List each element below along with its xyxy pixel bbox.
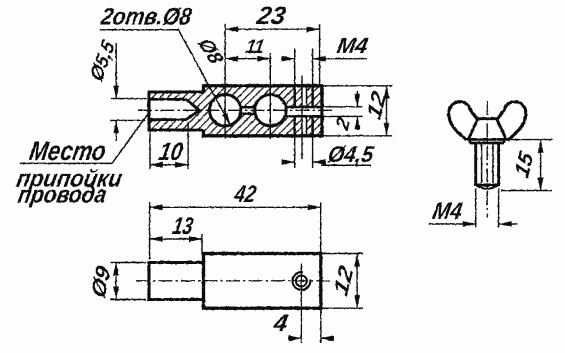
svg-text:42: 42 — [232, 181, 259, 208]
bottom view neck — [149, 263, 204, 300]
dimension Ø9 — [88, 263, 146, 302]
svg-text:Ø5,5: Ø5,5 — [86, 36, 119, 86]
dimension 12 top view — [322, 86, 392, 136]
leader Mesto pripoyki provoda — [15, 110, 151, 209]
wing nut boss — [468, 119, 506, 140]
dimension M4 top — [281, 33, 370, 86]
svg-text:2: 2 — [333, 114, 355, 134]
dimension 42 — [150, 181, 321, 259]
axial hole Ø5.5 cutout — [149, 99, 200, 119]
dimension 11 — [225, 36, 270, 139]
svg-text:Ø9: Ø9 — [88, 263, 116, 301]
hole circle 2 cutout — [255, 95, 286, 126]
svg-text:Ø4,5: Ø4,5 — [326, 141, 377, 167]
dimension 15 — [501, 140, 553, 191]
dimension Ø4,5 — [282, 136, 377, 168]
bottom view hole inner circle — [296, 276, 307, 287]
hole circle 1 cutout — [210, 95, 241, 126]
dimension 4 — [271, 308, 334, 343]
dimension 2 — [322, 91, 363, 134]
slot cutout right — [285, 107, 322, 116]
screw hole column cutout — [302, 86, 307, 136]
axial hole outline — [149, 99, 200, 119]
hole circle 1 — [210, 95, 241, 126]
wing nut right wing — [497, 102, 526, 140]
dimension 10 — [150, 122, 188, 169]
svg-text:11: 11 — [244, 36, 266, 58]
svg-text:Ø8: Ø8 — [193, 36, 228, 68]
dimension M4 wing nut — [429, 188, 518, 228]
bottom view hole center line — [300, 264, 302, 343]
slot lines right — [285, 107, 322, 116]
svg-text:Место: Место — [27, 135, 108, 166]
svg-text:M4: M4 — [431, 198, 465, 225]
wing nut flange — [465, 139, 510, 143]
stud bottom dome — [477, 186, 498, 189]
svg-text:M4: M4 — [335, 33, 370, 58]
svg-text:2отв.Ø8: 2отв.Ø8 — [98, 4, 194, 31]
svg-text:провода: провода — [16, 182, 109, 209]
bottom view hole outer circle — [293, 272, 311, 290]
neck outline — [149, 92, 204, 130]
slot lines between circles — [240, 107, 255, 114]
bottom view axis — [136, 280, 331, 282]
dimension Ø5,5 — [86, 36, 146, 141]
main axis center line — [138, 109, 333, 111]
svg-text:12: 12 — [330, 262, 358, 299]
svg-text:10: 10 — [157, 138, 185, 166]
screw hole lines — [295, 86, 313, 136]
svg-text:23: 23 — [254, 2, 288, 30]
dimension 12 bottom view — [321, 254, 363, 309]
body outline — [204, 86, 323, 136]
dimension 23 — [225, 2, 320, 139]
hole circle 2 — [255, 95, 286, 126]
bottom view body — [204, 254, 321, 309]
dimension 13 — [150, 213, 202, 255]
stud thread lines — [482, 145, 493, 184]
screw hole thread lines — [306, 86, 308, 136]
label 2otv.Ø8 with leader — [98, 4, 230, 126]
svg-text:13: 13 — [170, 213, 195, 240]
slot cutout between circles — [240, 107, 256, 114]
wing nut left wing — [449, 102, 478, 140]
wing nut center line — [486, 101, 488, 218]
svg-text:4: 4 — [271, 310, 291, 337]
wing nut threaded stud — [476, 143, 499, 186]
section view: part material hatch — [149, 86, 322, 136]
screw hole center line — [301, 75, 303, 159]
svg-text:15: 15 — [511, 147, 538, 181]
